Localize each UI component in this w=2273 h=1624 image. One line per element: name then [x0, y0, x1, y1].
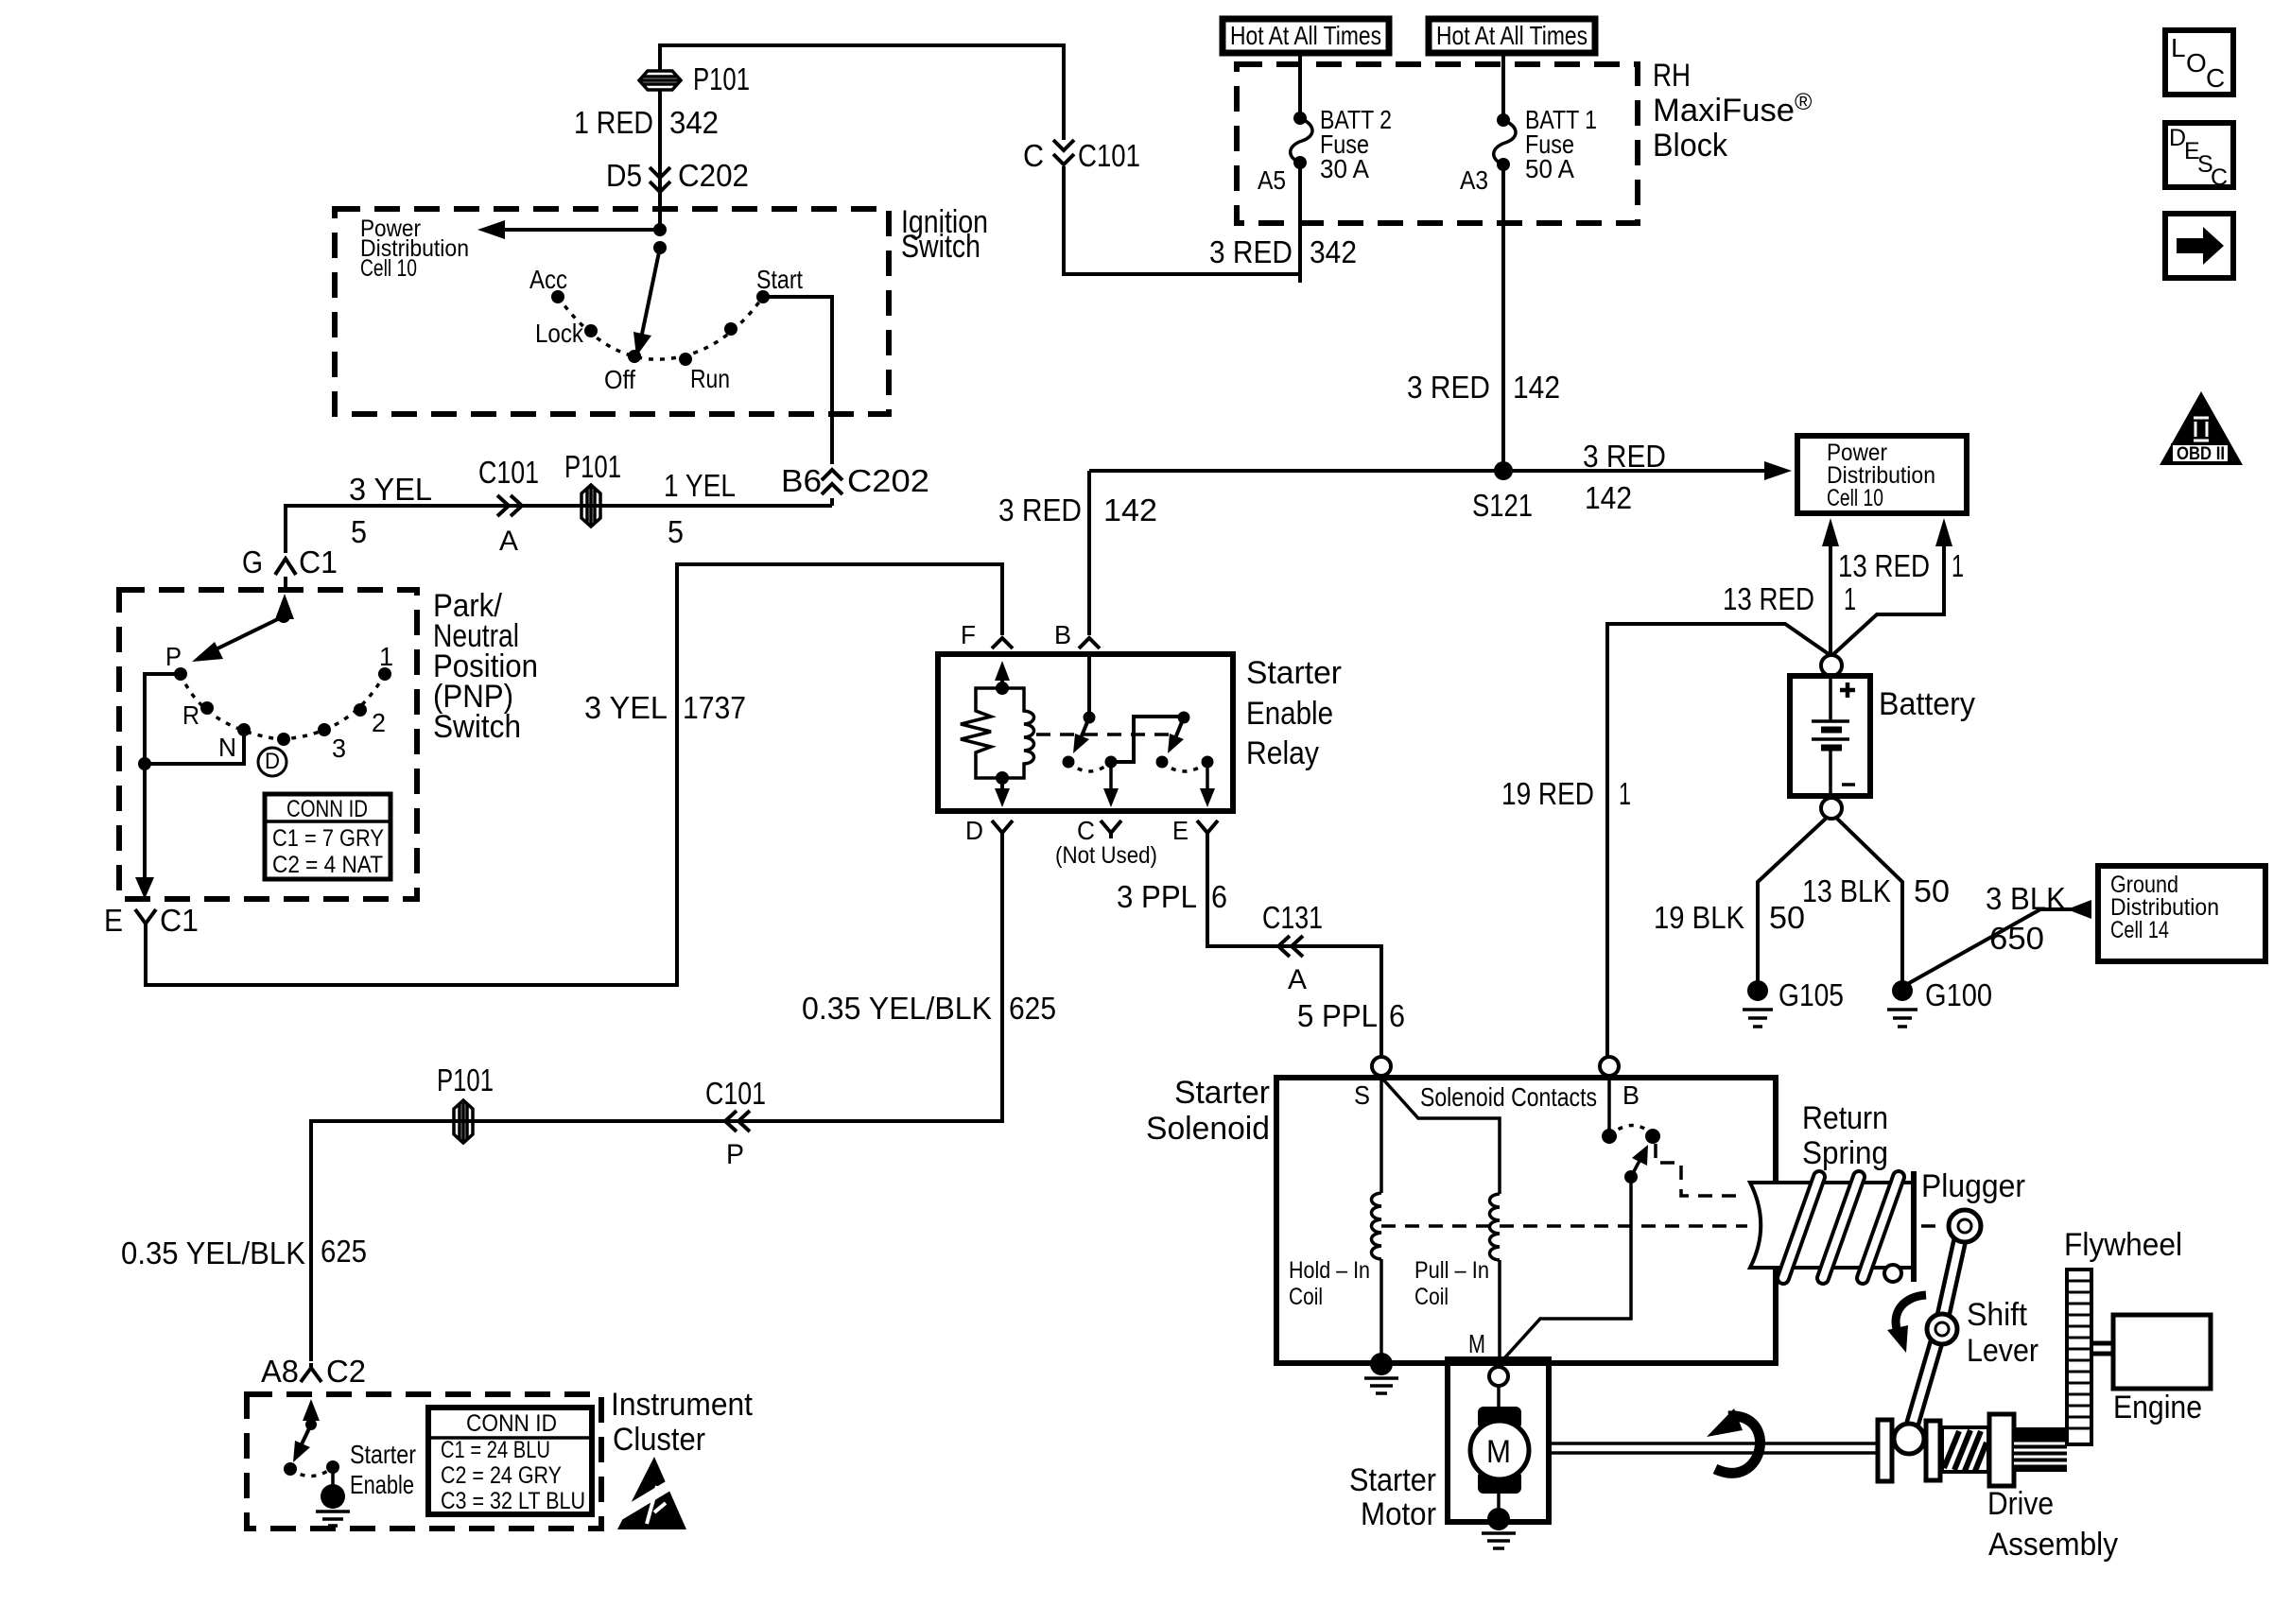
svg-text:13 RED: 13 RED — [1723, 581, 1814, 616]
svg-text:Solenoid Contacts: Solenoid Contacts — [1420, 1082, 1597, 1112]
svg-text:D: D — [265, 749, 280, 774]
svg-text:Switch: Switch — [901, 229, 980, 265]
fuse BATT 1 (A3) — [1494, 113, 1516, 171]
wire: 1 RED 342 from P101 up and over to C101 — [660, 45, 1064, 140]
node S121 — [1494, 461, 1513, 480]
svg-text:C1 = 7 GRY: C1 = 7 GRY — [272, 825, 384, 852]
cluster entry arrow — [309, 1414, 313, 1425]
node: PNP output junction — [138, 757, 151, 770]
wire: PNP output to E C1 — [143, 764, 147, 893]
wire: feed into BATT 1 fuse — [1501, 53, 1505, 120]
wire: P contact to output — [145, 674, 181, 764]
svg-text:P: P — [165, 642, 182, 671]
svg-text:P101: P101 — [564, 449, 621, 484]
relay switch 2 feed step wire — [1111, 717, 1184, 762]
contact: switch 1 left — [1063, 756, 1075, 769]
dashed arc starter enable — [290, 1467, 333, 1477]
shaft rotation arrow — [1707, 1408, 1761, 1473]
svg-text:CONN ID: CONN ID — [466, 1410, 557, 1437]
wire: 13 RED / 19 RED junction — [1607, 624, 1831, 1058]
legend LOC box — [2165, 30, 2233, 95]
grommet P101 (lower) — [454, 1100, 473, 1143]
svg-text:Start: Start — [756, 265, 803, 294]
svg-text:0.35 YEL/BLK: 0.35 YEL/BLK — [802, 991, 992, 1026]
wire: 1 RED into ignition switch — [658, 90, 662, 230]
svg-text:Coil: Coil — [1414, 1284, 1449, 1310]
wire: B into contact — [1607, 1078, 1611, 1136]
hold-in coil — [1372, 1193, 1382, 1259]
svg-text:Engine: Engine — [2113, 1390, 2202, 1425]
svg-text:Hot At All Times: Hot At All Times — [1436, 21, 1588, 50]
svg-text:C101: C101 — [1078, 138, 1140, 173]
wire: 3 YEL 5 / 1 YEL 5 horizontal — [286, 506, 832, 553]
svg-text:650: 650 — [1989, 921, 2044, 956]
connector C131 pin A (double chevron left) — [1278, 936, 1303, 957]
relay terminal D (chevron) — [992, 821, 1013, 838]
svg-text:Plugger: Plugger — [1921, 1168, 2025, 1204]
wire: contact to C terminal with arrow — [1109, 762, 1113, 792]
wire: feed into BATT 2 fuse — [1298, 53, 1302, 118]
svg-text:Enable: Enable — [350, 1470, 414, 1499]
relay switch 1 wiper arrow — [1081, 717, 1089, 738]
svg-text:6: 6 — [1211, 879, 1227, 914]
contact: switch 2 left — [1156, 756, 1169, 769]
wire: C101 to fuse block A5 — [1064, 163, 1300, 274]
svg-text:50: 50 — [1769, 900, 1805, 935]
svg-text:Spring: Spring — [1802, 1135, 1888, 1171]
drive screw (hatched) — [1942, 1427, 1988, 1472]
svg-text:B6: B6 — [781, 463, 822, 498]
shift lever — [1911, 1210, 1981, 1429]
contact: starter enable right — [326, 1460, 339, 1474]
svg-text:Motor: Motor — [1361, 1496, 1436, 1532]
PNP entry arrow — [282, 611, 286, 616]
motor shaft — [1549, 1443, 1877, 1453]
starter enable switch wiper arrow — [300, 1425, 311, 1448]
wire: pull-in coil to M — [1498, 1260, 1501, 1363]
connector C1 pin E (chevron) — [135, 909, 156, 928]
svg-text:Solenoid: Solenoid — [1146, 1111, 1270, 1147]
dashed arc switch 2 — [1162, 762, 1207, 771]
legend DESC box — [2165, 123, 2233, 191]
svg-text:3: 3 — [332, 734, 346, 763]
svg-text:C202: C202 — [678, 158, 749, 193]
contact 1 — [378, 667, 391, 681]
svg-text:Off: Off — [604, 365, 635, 394]
Hot At All Times box (right) — [1429, 19, 1595, 53]
svg-text:C1 = 24 BLU: C1 = 24 BLU — [441, 1437, 550, 1463]
svg-text:19 BLK: 19 BLK — [1654, 900, 1744, 935]
svg-text:C: C — [1077, 816, 1095, 845]
starter solenoid box — [1276, 1078, 1776, 1363]
svg-text:C: C — [2206, 63, 2225, 93]
connector C1 pin G (chevron) — [275, 559, 296, 575]
svg-text:A5: A5 — [1258, 165, 1286, 195]
svg-text:Cell 14: Cell 14 — [2110, 917, 2169, 943]
svg-text:Coil: Coil — [1289, 1284, 1323, 1310]
svg-text:142: 142 — [1585, 480, 1632, 515]
svg-text:G: G — [242, 544, 263, 579]
wire: S to hold-in coil — [1379, 1080, 1383, 1193]
wire: feed to power distribution (left arrow) — [492, 228, 660, 232]
wire: 3 RED 142 from A3 fuse to S121 — [1501, 164, 1505, 471]
svg-text:Assembly: Assembly — [1988, 1527, 2118, 1563]
flywheel ring gear — [2067, 1270, 2091, 1444]
drive collar plate 2 — [1926, 1421, 1940, 1480]
svg-text:(Not Used): (Not Used) — [1055, 842, 1157, 869]
node: switch 1 pivot — [1084, 712, 1096, 724]
wire: S121 to power distribution arrow — [1089, 469, 1766, 473]
wire: relay D down to P101 and A8 — [311, 838, 1002, 1361]
shift lever rotation arrow — [1887, 1295, 1926, 1353]
node: ignition feed junction — [653, 223, 667, 236]
contact: switch 1 right (to C) — [1105, 756, 1118, 769]
svg-text:RH: RH — [1653, 58, 1691, 94]
legend OBD II triangle — [2160, 391, 2243, 465]
relay terminal B (chevron) — [1079, 638, 1100, 648]
battery internals — [1812, 676, 1855, 796]
svg-text:Lock: Lock — [535, 319, 584, 348]
svg-text:Cell 10: Cell 10 — [360, 255, 417, 282]
drive collar ball (lever end) — [1894, 1424, 1924, 1454]
contact: switch 2 right (to E) — [1202, 756, 1214, 769]
svg-text:142: 142 — [1103, 492, 1157, 527]
drive collar plate 1 — [1878, 1420, 1892, 1481]
solenoid contact wiper arrow — [1631, 1159, 1640, 1177]
svg-text:D5: D5 — [606, 158, 642, 193]
wire: hold-in coil to ground — [1379, 1259, 1383, 1359]
contact (unnamed) — [724, 322, 737, 336]
Power Distribution Cell 10 box — [1797, 436, 1967, 513]
fuse BATT 2 (A5) — [1291, 112, 1312, 169]
drive end plate — [1989, 1414, 2014, 1486]
wire: battery - to G105 — [1758, 817, 1828, 983]
contact D (circled) — [277, 733, 290, 746]
svg-text:Run: Run — [690, 364, 730, 393]
relay coil — [1002, 688, 1034, 778]
connector C202 pin B6 (double chevron up) — [822, 470, 842, 494]
svg-text:3 RED: 3 RED — [998, 492, 1082, 527]
contact: solenoid left — [1602, 1129, 1617, 1144]
ground G105 — [1743, 980, 1773, 1027]
instrument cluster dashed box — [247, 1394, 601, 1529]
node: starter enable switch pivot — [305, 1419, 317, 1430]
svg-text:625: 625 — [321, 1234, 367, 1269]
svg-text:P: P — [726, 1139, 744, 1170]
svg-text:C: C — [1023, 138, 1044, 173]
svg-text:Cluster: Cluster — [613, 1422, 705, 1458]
svg-text:Shift: Shift — [1967, 1297, 2028, 1333]
CONN ID box (PNP) — [265, 794, 390, 879]
svg-text:Flywheel: Flywheel — [2064, 1227, 2182, 1263]
wire: Start output to C202 B6 — [763, 297, 832, 464]
svg-text:Starter: Starter — [1246, 655, 1342, 691]
svg-text:5: 5 — [351, 514, 367, 549]
svg-text:Starter: Starter — [1174, 1075, 1270, 1111]
svg-text:S121: S121 — [1472, 488, 1533, 523]
M terminal circle — [1489, 1367, 1508, 1386]
svg-text:1: 1 — [379, 642, 393, 671]
pinion (striped) — [2014, 1427, 2067, 1472]
wire: A5 fuse output down — [1298, 163, 1302, 283]
relay mechanical dashed link — [1036, 733, 1172, 736]
grommet P101 (top) — [639, 71, 681, 90]
svg-text:A: A — [499, 526, 518, 557]
svg-text:1 YEL: 1 YEL — [664, 468, 736, 503]
svg-text:50: 50 — [1914, 873, 1950, 908]
svg-text:6: 6 — [1389, 998, 1405, 1033]
svg-text:M: M — [1486, 1434, 1511, 1470]
svg-text:MaxiFuse®: MaxiFuse® — [1653, 89, 1813, 129]
svg-text:C3 = 32 LT BLU: C3 = 32 LT BLU — [441, 1488, 585, 1514]
svg-text:C131: C131 — [1262, 900, 1323, 935]
cluster internal ground — [316, 1467, 350, 1526]
wire: G100 to ground distribution — [1902, 909, 2080, 987]
plunger body — [1750, 1171, 1914, 1282]
wire: battery + to power dist (left arrow) — [1829, 544, 1832, 655]
flywheel to engine shaft — [2091, 1343, 2113, 1354]
battery box — [1790, 676, 1870, 796]
contact Off — [628, 350, 641, 363]
svg-text:Starter: Starter — [1349, 1462, 1436, 1498]
svg-text:S: S — [1354, 1080, 1370, 1110]
relay terminal C (chevron, not used) — [1101, 821, 1121, 838]
wire: contact to E terminal with arrow — [1206, 762, 1209, 792]
starter enable relay box U1 — [938, 654, 1233, 811]
svg-text:A8: A8 — [261, 1354, 299, 1389]
relay coil entry arrow from F — [1000, 673, 1004, 688]
svg-text:Starter: Starter — [350, 1440, 416, 1469]
wire: motor to ground — [1497, 1494, 1501, 1512]
node: coil top — [996, 682, 1009, 695]
svg-text:Enable: Enable — [1246, 696, 1333, 732]
svg-text:3 YEL: 3 YEL — [584, 690, 668, 725]
solenoid S terminal circle — [1372, 1057, 1391, 1076]
contact N — [237, 723, 251, 736]
svg-text:N: N — [218, 733, 236, 762]
engine box — [2113, 1315, 2211, 1389]
starter motor M — [1470, 1407, 1529, 1494]
svg-text:O: O — [2186, 48, 2207, 78]
relay terminal E (chevron) — [1197, 821, 1218, 838]
svg-text:1737: 1737 — [683, 690, 746, 725]
wire: S to pull-in coil (diagonal) — [1383, 1080, 1500, 1194]
relay coil exit arrow to D — [1000, 778, 1004, 794]
connector C202 pin D5 (double chevron down) — [650, 167, 670, 192]
node: switch 2 pivot — [1178, 712, 1190, 724]
wire: N contact branch — [145, 730, 244, 764]
pull-in coil — [1490, 1194, 1501, 1260]
svg-text:CONN ID: CONN ID — [286, 796, 368, 822]
ground G100 — [1887, 980, 1917, 1027]
grommet P101 (mid) — [581, 485, 600, 527]
node: wiper pivot — [653, 241, 667, 254]
Hot At All Times box (left) — [1223, 19, 1389, 53]
wire: M to solenoid contact riser — [1503, 1177, 1631, 1359]
contact R — [200, 701, 214, 715]
battery + terminal — [1821, 655, 1842, 676]
contact Acc — [551, 290, 564, 303]
svg-text:3 BLK: 3 BLK — [1986, 881, 2066, 916]
RH MaxiFuse Block dashed box — [1237, 64, 1638, 223]
node: solenoid contact pivot — [1624, 1170, 1638, 1183]
wire: battery - to G100 — [1835, 817, 1902, 983]
svg-text:1: 1 — [1952, 548, 1964, 583]
svg-text:F: F — [961, 620, 976, 649]
contact: solenoid right — [1645, 1129, 1660, 1144]
svg-text:Battery: Battery — [1879, 686, 1975, 722]
CONN ID box (cluster) — [428, 1408, 592, 1514]
svg-text:C101: C101 — [478, 455, 539, 490]
contact Start — [756, 290, 770, 303]
svg-text:B: B — [1054, 620, 1071, 649]
contact Lock — [584, 324, 598, 337]
svg-text:M: M — [1468, 1329, 1485, 1358]
Ground Distribution Cell 14 box — [2098, 866, 2265, 961]
svg-text:G105: G105 — [1778, 977, 1844, 1012]
contact Run — [679, 353, 692, 366]
svg-text:Drive: Drive — [1987, 1486, 2054, 1522]
svg-text:Lever: Lever — [1967, 1333, 2039, 1369]
node: coil bottom — [996, 771, 1009, 785]
connector C101 pin A (double chevron right) — [497, 495, 522, 516]
svg-text:3 RED: 3 RED — [1407, 370, 1490, 405]
svg-text:OBD II: OBD II — [2177, 444, 2225, 464]
contact 3 — [318, 723, 331, 736]
wire: 3 YEL 1737 from E to relay F — [146, 564, 1002, 985]
wire: M to motor — [1497, 1386, 1501, 1413]
svg-text:C2 = 4 NAT: C2 = 4 NAT — [272, 852, 383, 878]
motor ground — [1482, 1508, 1516, 1548]
svg-text:342: 342 — [1310, 234, 1357, 269]
svg-text:2: 2 — [372, 708, 386, 737]
solenoid B terminal circle — [1600, 1057, 1619, 1076]
svg-text:Switch: Switch — [433, 709, 521, 745]
svg-text:C: C — [2211, 164, 2228, 191]
relay terminal F (chevron) — [992, 638, 1013, 648]
svg-text:30 A: 30 A — [1320, 154, 1369, 183]
connector C101 pin P (double chevron left) — [725, 1111, 750, 1132]
svg-text:Cell 10: Cell 10 — [1827, 485, 1883, 511]
svg-text:50 A: 50 A — [1525, 154, 1574, 183]
svg-text:3 PPL: 3 PPL — [1117, 879, 1197, 914]
svg-text:C2: C2 — [326, 1354, 366, 1389]
contact 2 — [354, 703, 367, 717]
svg-text:A: A — [1288, 964, 1307, 995]
relay switch 2 wiper arrow — [1175, 717, 1184, 738]
wire: 3 RED 142 from S121 down to relay B — [1087, 471, 1091, 635]
svg-text:3 YEL: 3 YEL — [349, 472, 432, 507]
connector C2 pin A8 (chevron) — [301, 1363, 321, 1382]
dashed arc solenoid contacts — [1609, 1125, 1653, 1136]
svg-text:Relay: Relay — [1246, 735, 1319, 771]
svg-text:142: 142 — [1513, 370, 1560, 405]
ignition switch dashed box — [335, 209, 889, 414]
wire: G into PNP switch — [284, 577, 287, 590]
svg-text:Return: Return — [1802, 1100, 1888, 1136]
svg-text:3 RED: 3 RED — [1209, 234, 1293, 269]
svg-text:C1: C1 — [299, 544, 338, 579]
legend arrow box — [2165, 214, 2233, 278]
PNP contact arc (dashed) — [181, 674, 385, 739]
dashed link coil axis — [1381, 1224, 1940, 1228]
svg-text:Block: Block — [1653, 128, 1728, 164]
svg-text:A3: A3 — [1460, 165, 1488, 195]
svg-text:R: R — [182, 700, 200, 730]
ESD symbol — [615, 1457, 690, 1529]
svg-text:1: 1 — [1619, 776, 1631, 811]
contact: starter enable left — [284, 1462, 297, 1476]
svg-text:Pull – In: Pull – In — [1414, 1257, 1489, 1284]
svg-text:5: 5 — [668, 514, 684, 549]
svg-text:Hot At All Times: Hot At All Times — [1230, 21, 1381, 50]
svg-text:Instrument: Instrument — [611, 1387, 754, 1423]
dashed link contact to plunger — [1656, 1144, 1744, 1196]
svg-text:C2 = 24 GRY: C2 = 24 GRY — [441, 1462, 562, 1489]
svg-text:C202: C202 — [847, 463, 929, 498]
svg-text:D: D — [965, 816, 983, 845]
svg-text:5 PPL: 5 PPL — [1297, 998, 1378, 1033]
svg-text:Acc: Acc — [529, 265, 567, 294]
svg-text:1: 1 — [1844, 581, 1856, 616]
svg-text:342: 342 — [669, 105, 719, 140]
relay resistor — [961, 688, 1002, 778]
PNP switch dashed box — [119, 590, 417, 899]
svg-text:Hold – In: Hold – In — [1289, 1257, 1370, 1284]
svg-text:3 RED: 3 RED — [1583, 439, 1666, 474]
svg-text:P101: P101 — [693, 61, 750, 96]
solenoid case ground — [1364, 1353, 1398, 1393]
wire: relay E down to C131 — [1207, 838, 1381, 1057]
battery - terminal — [1821, 798, 1842, 819]
svg-text:L: L — [2171, 33, 2186, 62]
ignition switch wiper arrow — [641, 248, 660, 338]
contact P — [174, 667, 187, 681]
svg-text:E: E — [104, 903, 123, 938]
svg-text:G100: G100 — [1925, 977, 1992, 1012]
svg-text:C1: C1 — [160, 903, 199, 938]
starter motor housing — [1448, 1359, 1549, 1522]
PNP wiper arrow toward P — [210, 616, 284, 652]
svg-text:13 BLK: 13 BLK — [1802, 873, 1891, 908]
svg-text:E: E — [1172, 816, 1189, 845]
svg-text:1 RED: 1 RED — [574, 105, 653, 140]
node: PNP wiper pivot — [277, 610, 290, 623]
svg-text:P101: P101 — [437, 1063, 494, 1097]
relay switch 1 feed from B — [1087, 654, 1091, 717]
svg-text:C101: C101 — [705, 1076, 766, 1111]
svg-text:625: 625 — [1009, 991, 1056, 1026]
dashed arc switch 1 — [1068, 762, 1111, 771]
ignition switch contact arc (dashed) — [558, 297, 763, 359]
connector C101 pin C (double chevron down) — [1053, 140, 1074, 164]
svg-text:13 RED: 13 RED — [1838, 548, 1930, 583]
svg-text:19 RED: 19 RED — [1501, 776, 1594, 811]
return spring coils — [1783, 1177, 1901, 1282]
wire: battery + to power dist (right arrow) — [1831, 544, 1944, 656]
svg-text:0.35 YEL/BLK: 0.35 YEL/BLK — [121, 1235, 305, 1270]
svg-text:B: B — [1622, 1080, 1640, 1110]
